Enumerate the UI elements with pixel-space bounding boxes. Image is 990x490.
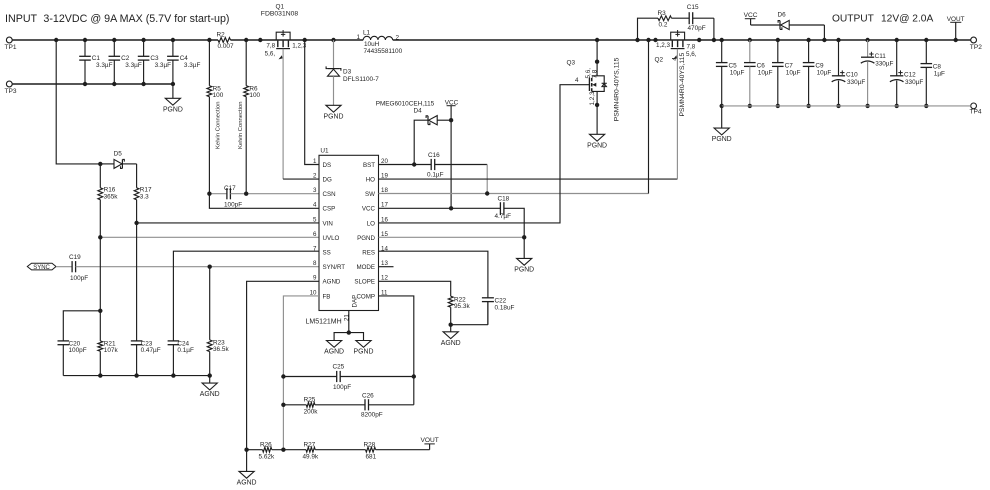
ground PGND DAP	[354, 341, 374, 356]
junction Q3 drain	[595, 38, 599, 42]
capacitor C12 330uF	[890, 40, 923, 108]
junction C18 PGND	[522, 235, 526, 239]
wire C18 to PGND	[504, 208, 524, 237]
svg-text:BST: BST	[363, 162, 375, 169]
wire divider bottom rail	[63, 375, 209, 377]
svg-text:Q1: Q1	[276, 4, 285, 11]
junction COMP C25	[412, 374, 416, 378]
junction snubber right	[712, 38, 716, 42]
svg-text:C4: C4	[180, 55, 189, 62]
svg-text:10µF: 10µF	[730, 70, 745, 77]
resistor R3 0.2	[638, 10, 690, 40]
capacitor C10 330uF	[832, 40, 866, 108]
wire COMP pin11 down	[379, 296, 414, 405]
resistor R22 95.3k	[448, 296, 470, 325]
wire SS pin7 to C24	[173, 251, 319, 341]
svg-text:7,8: 7,8	[592, 69, 599, 78]
svg-text:7,8: 7,8	[266, 42, 275, 49]
wire DAP pin21	[344, 311, 351, 333]
junction R23 on SYNRT line	[208, 265, 212, 269]
label kelvin connection right	[238, 102, 244, 149]
junction snubber left	[635, 38, 639, 42]
wire BST pin20 line	[379, 164, 432, 166]
capacitor C20 100pF	[58, 311, 101, 376]
junction chain FB	[281, 448, 285, 452]
capacitor C8 1uF	[921, 40, 946, 108]
wire VIN line pin5	[137, 222, 319, 224]
svg-text:100: 100	[249, 92, 260, 99]
svg-text:C17: C17	[224, 185, 236, 192]
svg-text:SYNC: SYNC	[33, 265, 50, 271]
svg-text:C5: C5	[729, 62, 738, 69]
svg-text:330µF: 330µF	[875, 60, 893, 67]
svg-text:PGND: PGND	[587, 142, 607, 149]
junction C1 top	[83, 38, 87, 42]
svg-text:C18: C18	[498, 195, 510, 202]
svg-text:3.3µF: 3.3µF	[96, 62, 113, 69]
junction R6 tap	[244, 38, 248, 42]
junction chain left	[244, 448, 248, 452]
wire R5 kelvin to CSP pin4	[209, 194, 319, 209]
junction R21 bottom	[98, 373, 102, 377]
svg-text:10µF: 10µF	[758, 70, 773, 77]
svg-text:5: 5	[313, 216, 317, 223]
svg-text:R27: R27	[304, 442, 316, 449]
net flag VCC near D6	[744, 12, 758, 25]
svg-text:SS: SS	[323, 250, 331, 257]
svg-text:C11: C11	[875, 53, 887, 60]
svg-text:1,2,3: 1,2,3	[589, 91, 596, 106]
wire Q1 drain to DS pin1	[305, 40, 319, 165]
junction D4 anode VCC	[449, 118, 453, 122]
svg-text:0.1µF: 0.1µF	[177, 347, 194, 354]
svg-text:8200pF: 8200pF	[361, 412, 383, 419]
svg-text:INPUT: INPUT	[5, 13, 38, 25]
junction SW sense tap	[646, 38, 650, 42]
capacitor C16 0.1uF	[427, 152, 487, 178]
svg-text:330µF: 330µF	[847, 79, 865, 86]
junction C2 top	[112, 38, 116, 42]
svg-text:C10: C10	[846, 71, 858, 78]
svg-text:21: 21	[344, 314, 351, 321]
junction R17 VIN	[134, 221, 138, 225]
svg-text:C22: C22	[495, 297, 507, 304]
junction C10 top	[836, 38, 840, 42]
resistor R26 5.62k	[247, 442, 284, 461]
junction R22 bottom	[449, 323, 453, 327]
junction DAP split	[347, 330, 351, 334]
junction C6 top	[748, 38, 752, 42]
label Q2 part number	[679, 53, 686, 117]
inductor L1	[357, 29, 403, 55]
capacitor C26 8200pF	[361, 392, 414, 418]
svg-text:OUTPUT: OUTPUT	[832, 14, 874, 25]
capacitor C19 100pF	[56, 254, 319, 282]
wire rail to D5 branch	[56, 40, 100, 164]
capacitor C25 100pF	[283, 364, 413, 392]
diode D5	[100, 150, 136, 168]
svg-text:PGND: PGND	[357, 235, 375, 242]
svg-text:20: 20	[381, 158, 388, 165]
svg-text:5,6,: 5,6,	[265, 50, 276, 57]
svg-text:3.3µF: 3.3µF	[155, 62, 172, 69]
wire UVLO node down to divider	[99, 237, 101, 310]
svg-text:9: 9	[313, 275, 317, 282]
resistor R27 49.9k	[283, 442, 365, 461]
ground PGND under D3	[324, 105, 344, 120]
svg-text:1: 1	[313, 158, 317, 165]
svg-text:TP4: TP4	[970, 109, 982, 116]
capacitor C15 470pF	[687, 4, 714, 40]
svg-text:PSMN4R0-40YS,115: PSMN4R0-40YS,115	[614, 57, 621, 121]
net flag VOUT output	[947, 16, 965, 40]
diode D4 PMEG6010CEH	[376, 100, 451, 164]
svg-text:AGND: AGND	[324, 349, 344, 356]
svg-text:R2: R2	[217, 31, 226, 38]
wire output return rail	[722, 105, 971, 107]
junction C7 top	[776, 38, 780, 42]
wire SW pin18 line	[379, 193, 649, 195]
svg-text:DFLS1100-7: DFLS1100-7	[343, 76, 379, 83]
label kelvin connection left	[215, 102, 221, 149]
svg-text:0.1µF: 0.1µF	[427, 171, 444, 178]
ground PGND output	[712, 106, 732, 143]
svg-text:PGND: PGND	[163, 106, 183, 113]
svg-text:DS: DS	[323, 162, 332, 169]
svg-text:R28: R28	[364, 442, 376, 449]
svg-text:AGND: AGND	[237, 479, 257, 486]
resistor R21 107k	[98, 311, 119, 376]
svg-text:3.3: 3.3	[140, 194, 149, 201]
svg-text:330µF: 330µF	[905, 79, 923, 86]
svg-text:1µF: 1µF	[934, 70, 945, 77]
junction C3 top	[141, 38, 145, 42]
junction Q2 drain lead	[697, 38, 701, 42]
wire RES pin14 to C22	[379, 251, 488, 298]
svg-text:SYN/RT: SYN/RT	[323, 264, 346, 271]
svg-text:0.18uF: 0.18uF	[495, 304, 515, 311]
svg-text:DAP: DAP	[352, 295, 359, 308]
net flag VOUT at R28	[421, 437, 439, 450]
svg-text:4: 4	[313, 202, 317, 209]
svg-text:R3: R3	[658, 10, 667, 17]
wire DAP split bar	[334, 333, 363, 341]
wire rail L1 to TP2	[393, 39, 971, 41]
svg-text:U1: U1	[320, 148, 329, 155]
diode D6	[751, 12, 825, 41]
svg-text:D4: D4	[414, 108, 423, 115]
svg-text:C25: C25	[333, 364, 345, 371]
junction divider top	[98, 309, 102, 313]
svg-text:1,2,3: 1,2,3	[656, 42, 671, 49]
wire rail R2 to L1	[231, 39, 364, 41]
wire Q1 gate to DG pin2	[283, 49, 319, 179]
junction Q1 drain lead / DS sense	[303, 38, 307, 42]
svg-text:C2: C2	[121, 55, 130, 62]
svg-text:SLOPE: SLOPE	[354, 279, 375, 286]
svg-text:HO: HO	[366, 177, 375, 184]
svg-text:LO: LO	[367, 220, 375, 227]
svg-text:3-12VDC @ 9A MAX (5.7V for sta: 3-12VDC @ 9A MAX (5.7V for start-up)	[43, 13, 229, 25]
net flag SYNC	[27, 263, 56, 271]
svg-text:107k: 107k	[104, 347, 119, 354]
test point TP2	[970, 37, 982, 51]
svg-text:2: 2	[313, 173, 317, 180]
junction Q2 source lead	[653, 38, 657, 42]
resistor R2	[217, 31, 234, 50]
svg-text:1: 1	[357, 34, 361, 41]
svg-text:C1: C1	[92, 55, 101, 62]
svg-text:PMEG6010CEH,115: PMEG6010CEH,115	[376, 100, 435, 107]
svg-text:PGND: PGND	[324, 113, 344, 120]
svg-text:8: 8	[313, 260, 317, 267]
ground PGND input	[163, 84, 183, 113]
test point TP1	[5, 37, 17, 51]
svg-text:100pF: 100pF	[333, 384, 351, 391]
ground AGND chain	[237, 450, 257, 487]
junction R16 UVLO	[98, 235, 102, 239]
svg-text:13: 13	[381, 260, 388, 267]
capacitor C23 0.47uF	[131, 223, 161, 376]
resistor R28 681	[364, 442, 430, 461]
transistor Q2 PSMN4R0-40YS	[655, 30, 697, 64]
svg-text:C8: C8	[933, 63, 942, 70]
junction C17 right	[244, 192, 248, 196]
capacitor C18 4.7uF	[495, 195, 512, 220]
pin MODE stub	[379, 266, 394, 268]
svg-text:CSN: CSN	[323, 191, 336, 198]
svg-text:UVLO: UVLO	[323, 235, 340, 242]
svg-text:681: 681	[366, 454, 377, 461]
ground AGND under R22	[441, 325, 461, 347]
junction C5 top	[720, 38, 724, 42]
svg-text:SW: SW	[365, 191, 375, 198]
svg-text:11: 11	[381, 289, 388, 296]
wire TP3 to C4 bottom	[12, 83, 173, 85]
resistor R16 365k	[98, 164, 118, 237]
svg-text:R26: R26	[260, 442, 272, 449]
junction VOUT flag tap	[954, 38, 958, 42]
wire PGND pin15 line	[379, 236, 525, 238]
svg-text:7: 7	[313, 246, 317, 253]
svg-text:100pF: 100pF	[224, 202, 242, 209]
wire VCC vertical to pin17	[450, 120, 452, 208]
svg-text:4: 4	[575, 77, 579, 84]
svg-text:4.7µF: 4.7µF	[495, 213, 512, 220]
resistor R6	[244, 40, 261, 194]
capacitor C1 3.3uF	[79, 40, 112, 86]
svg-text:6: 6	[313, 231, 317, 238]
svg-text:C12: C12	[904, 71, 916, 78]
resistor R23 36.5k	[207, 267, 229, 376]
junction input cap bank tap	[54, 38, 58, 42]
svg-text:365k: 365k	[104, 194, 119, 201]
svg-text:95.3k: 95.3k	[454, 303, 470, 310]
svg-text:Kelvin Connection: Kelvin Connection	[215, 102, 221, 149]
junction SW C16	[485, 191, 489, 195]
svg-text:VCC: VCC	[362, 206, 376, 213]
svg-text:10µF: 10µF	[786, 70, 801, 77]
svg-text:AGND: AGND	[323, 279, 341, 286]
wire VCC pin17 line	[379, 207, 501, 209]
svg-text:D5: D5	[114, 150, 123, 157]
svg-text:FB: FB	[323, 293, 331, 300]
junction FB C25	[281, 374, 285, 378]
svg-text:Kelvin Connection: Kelvin Connection	[238, 102, 244, 149]
junction D6 anode corner	[822, 38, 826, 42]
junction C9 top	[924, 38, 928, 42]
junction R5 tap	[207, 38, 211, 42]
resistor R17 3.3	[134, 164, 152, 223]
label Q3 part number	[614, 57, 621, 121]
wire AGND pin9 down	[247, 281, 319, 449]
svg-text:D3: D3	[343, 68, 352, 75]
svg-text:10: 10	[310, 289, 317, 296]
svg-text:0.2: 0.2	[659, 22, 668, 29]
junction C23 bottom	[134, 373, 138, 377]
capacitor C6 10uF	[744, 40, 773, 108]
junction D3 top	[331, 38, 335, 42]
ground AGND DAP	[324, 341, 344, 356]
resistor R5	[207, 40, 224, 194]
junction C4 top	[171, 38, 175, 42]
svg-text:PGND: PGND	[712, 136, 732, 143]
svg-text:TP3: TP3	[5, 88, 17, 95]
junction Q1 source lead	[258, 38, 262, 42]
junction FB R25	[281, 403, 285, 407]
svg-text:R25: R25	[304, 397, 316, 404]
wire FB pin10 down	[283, 296, 319, 450]
svg-text:VCC: VCC	[744, 12, 758, 19]
svg-text:19: 19	[381, 173, 388, 180]
wire R22 C22 bottom join	[451, 302, 488, 325]
svg-text:470pF: 470pF	[688, 25, 706, 32]
svg-text:3: 3	[313, 187, 317, 194]
svg-text:7,8: 7,8	[687, 43, 696, 50]
svg-text:C26: C26	[362, 392, 374, 399]
svg-text:VOUT: VOUT	[421, 437, 439, 444]
svg-text:COMP: COMP	[356, 293, 375, 300]
svg-text:200k: 200k	[304, 409, 319, 416]
svg-text:100pF: 100pF	[70, 275, 88, 282]
svg-text:17: 17	[381, 202, 388, 209]
junction C11 top	[865, 38, 869, 42]
svg-text:C3: C3	[150, 55, 159, 62]
svg-text:AGND: AGND	[200, 391, 220, 398]
capacitor C7 10uF	[772, 40, 801, 108]
wire SLOPE pin12 to R22	[379, 281, 451, 296]
svg-text:VIN: VIN	[323, 220, 333, 227]
svg-text:16: 16	[381, 216, 388, 223]
junction C24 bottom	[171, 373, 175, 377]
svg-text:C7: C7	[785, 62, 794, 69]
svg-text:100pF: 100pF	[69, 347, 87, 354]
junction C12 top	[895, 38, 899, 42]
svg-text:LM5121MH: LM5121MH	[306, 318, 342, 325]
op-amp U1 LM5121MH body	[310, 148, 389, 311]
svg-text:49.9k: 49.9k	[303, 454, 319, 461]
svg-text:74435581100: 74435581100	[364, 48, 403, 55]
title input spec text	[5, 13, 229, 25]
svg-text:Q2: Q2	[655, 57, 664, 64]
wire SW vertical to rail	[648, 40, 650, 194]
svg-text:PSMN4R0-40YS,115: PSMN4R0-40YS,115	[679, 53, 686, 117]
svg-text:3.3µF: 3.3µF	[184, 62, 201, 69]
test point TP4	[970, 103, 982, 116]
junction C8 top	[806, 38, 810, 42]
svg-text:AGND: AGND	[441, 340, 461, 347]
svg-text:0.007: 0.007	[218, 43, 234, 50]
svg-text:C15: C15	[687, 4, 699, 11]
svg-text:12: 12	[381, 275, 388, 282]
wire UVLO line pin6	[100, 236, 319, 238]
ground PGND under Q3	[587, 134, 607, 149]
svg-text:TP2: TP2	[970, 44, 982, 51]
resistor R25 200k	[283, 397, 365, 416]
net flag VCC over D4	[445, 100, 459, 121]
svg-text:C16: C16	[428, 152, 440, 159]
test point TP3	[5, 81, 17, 95]
title output spec text	[832, 14, 933, 25]
junction D5 anode node	[98, 162, 102, 166]
capacitor C2 3.3uF	[109, 40, 142, 86]
transistor Q3 PSMN4R0-40YS	[567, 40, 607, 134]
svg-text:5,6,: 5,6,	[686, 51, 697, 58]
capacitor C24 0.1uF	[168, 340, 194, 375]
junction BST D4 tap	[412, 162, 416, 166]
wire input rail TP1 to R2	[12, 39, 218, 41]
ground PGND under C18	[514, 237, 534, 273]
svg-text:C9: C9	[815, 62, 824, 69]
svg-text:0.47µF: 0.47µF	[141, 347, 161, 354]
label U1 part number	[306, 318, 342, 325]
svg-text:C6: C6	[757, 62, 766, 69]
svg-text:10µF: 10µF	[817, 70, 832, 77]
svg-text:RES: RES	[362, 250, 375, 257]
junction VCC line	[449, 206, 453, 210]
capacitor C5 10uF	[716, 40, 745, 108]
wire Q2 gate to HO	[676, 49, 678, 179]
svg-text:PGND: PGND	[354, 349, 374, 356]
svg-text:DG: DG	[323, 177, 332, 184]
svg-text:PGND: PGND	[514, 266, 534, 273]
svg-text:C19: C19	[69, 254, 81, 261]
wire HO pin19 to Q2 gate	[379, 178, 678, 180]
svg-text:36.5k: 36.5k	[213, 346, 229, 353]
capacitor C4 3.3uF	[167, 40, 200, 86]
svg-text:3.3µF: 3.3µF	[125, 62, 142, 69]
svg-text:TP1: TP1	[5, 44, 17, 51]
svg-text:100: 100	[213, 92, 224, 99]
capacitor C9 10uF	[803, 40, 832, 108]
svg-text:L1: L1	[363, 29, 371, 36]
transistor Q1 FDB031N08	[261, 4, 307, 60]
svg-text:5.62k: 5.62k	[259, 454, 275, 461]
svg-text:D6: D6	[778, 12, 787, 19]
svg-text:FDB031N08: FDB031N08	[261, 11, 299, 18]
svg-text:MODE: MODE	[356, 264, 375, 271]
capacitor C17 100pF	[209, 185, 319, 209]
diode D3 DFLS1100-7	[326, 40, 379, 105]
wire LO pin16 to Q3 gate	[379, 85, 590, 223]
wire C16 to SW node	[486, 165, 488, 194]
capacitor C22 0.18uF	[482, 297, 515, 324]
capacitor C11 330uF	[861, 40, 894, 108]
svg-text:12V@ 2.0A: 12V@ 2.0A	[881, 14, 933, 25]
junction R23 bottom	[208, 373, 212, 377]
capacitor C3 3.3uF	[138, 40, 171, 86]
junction C17 left	[207, 192, 211, 196]
